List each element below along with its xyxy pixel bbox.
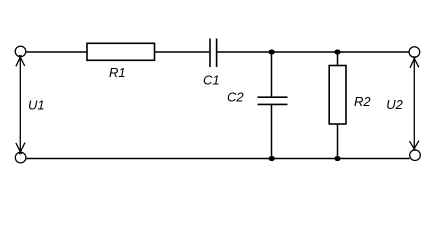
svg-text:U1: U1 [28, 98, 45, 113]
terminal BR [410, 150, 421, 161]
terminal TR [409, 47, 420, 58]
wire C2 branch upper [271, 52, 273, 97]
svg-text:C2: C2 [227, 90, 244, 105]
svg-text:R2: R2 [354, 94, 371, 109]
svg-text:U2: U2 [386, 97, 403, 112]
junction R2 bottom [334, 156, 340, 161]
capacitor C1 [210, 39, 217, 68]
terminal BL [15, 152, 26, 163]
wire R2 branch lower [337, 124, 339, 159]
resistor R2 [329, 66, 346, 125]
svg-text:R1: R1 [109, 65, 126, 80]
junction C2 bottom [269, 156, 275, 161]
capacitor C2 [258, 97, 288, 104]
svg-text:C1: C1 [203, 73, 220, 88]
wire C1 to TR terminal [217, 51, 409, 53]
wire top-left: TL terminal to R1 [26, 51, 87, 53]
wire C2 branch lower [271, 105, 273, 159]
resistor R1 [87, 43, 155, 60]
voltage arrow U2 [410, 56, 420, 151]
terminal TL [15, 46, 26, 57]
wire bottom: BL terminal to BR terminal [26, 158, 410, 160]
wire R2 branch upper [337, 52, 339, 66]
wire R1 to C1 [155, 51, 210, 53]
junction R2 top [334, 49, 340, 54]
voltage arrow U1 [16, 55, 25, 154]
junction C2 top [269, 49, 275, 54]
